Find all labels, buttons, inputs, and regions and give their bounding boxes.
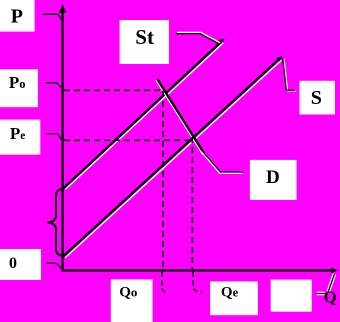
callout from Po box to Po guide [46,83,64,91]
svg-text:0: 0 [9,255,17,272]
label box S [300,81,336,115]
svg-text:S: S [311,87,322,109]
empty label box [271,280,312,312]
callout from demand curve end to D box [200,150,243,174]
dashed guide Po horizontal [64,89,164,91]
supply-with-tax curve St [63,39,225,190]
label box D [250,160,297,200]
dashed guide Pe horizontal [64,139,193,141]
svg-text:P: P [11,6,23,28]
quantity axis Q (horizontal) [62,268,339,274]
price axis P (vertical) [59,4,67,271]
svg-text:St: St [135,25,154,49]
svg-text:D: D [266,167,280,188]
svg-text:Q: Q [324,288,337,307]
callout from St box to St curve [176,32,220,44]
label box P [0,0,35,32]
label box Qe [210,281,258,315]
label box Pe [0,120,40,155]
dashed guide Qo vertical [162,91,164,269]
label box Po [0,69,38,107]
supply curve S [63,56,282,257]
dashed callout hook from Qo guide to Qo label [162,272,168,293]
callout from 0 box to origin [46,263,61,268]
tax brace (curly bracket on price axis) [47,189,62,256]
label box Qo [111,279,153,322]
callout from Pe box to Pe guide [46,134,63,141]
callout from P box to axis [42,14,62,20]
svg-text:Qo: Qo [119,285,137,301]
callout from Q axis arrow to Q label [317,274,335,294]
demand curve D [156,79,204,155]
dashed callout hook from Qe guide to Qe label [193,272,202,293]
label box St [120,20,169,64]
dashed guide Qe vertical [191,137,193,269]
svg-text:Qe: Qe [221,285,239,301]
callout from S curve end to S box [283,58,296,91]
label box 0 (origin) [0,249,41,280]
